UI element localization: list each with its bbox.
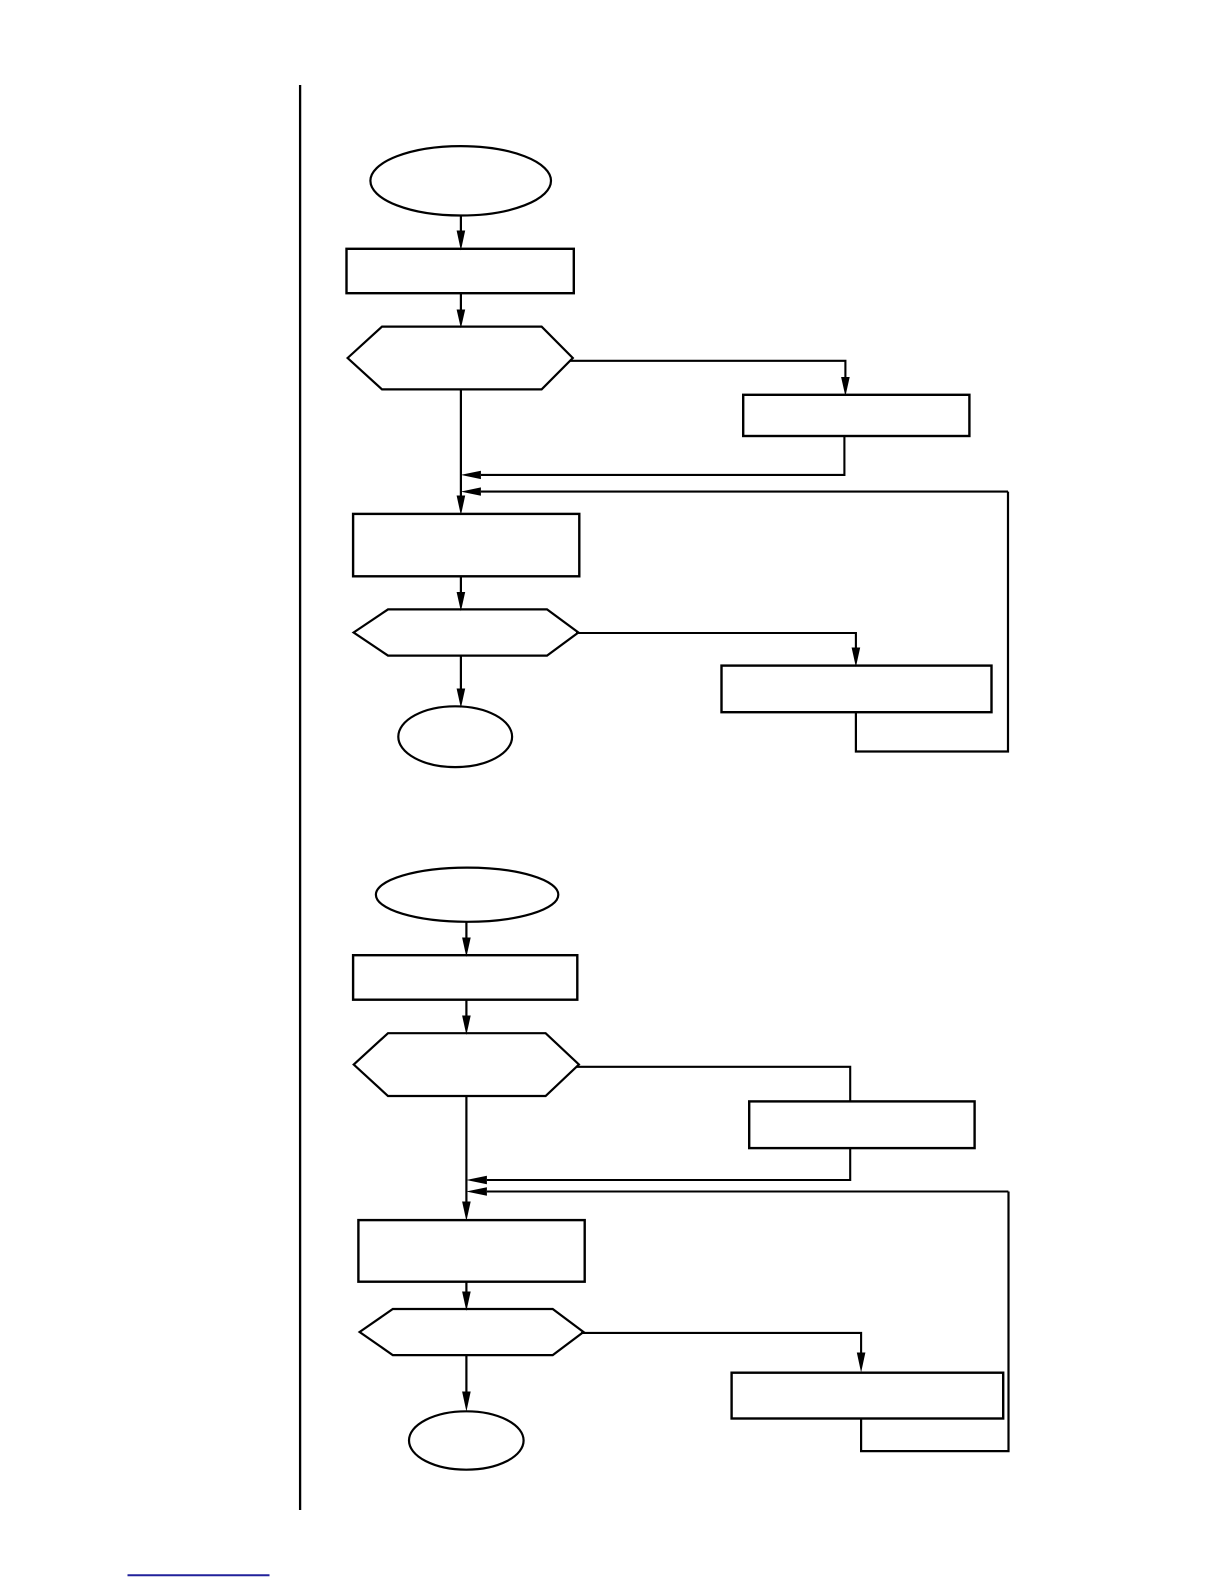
process box P4 (722, 666, 992, 713)
process box P7 (358, 1220, 584, 1282)
wire D2 right branch to P4 (576, 633, 856, 649)
wire P2 loop back to main line (481, 436, 844, 475)
wire P1 to D1 (460, 293, 462, 310)
arrowhead into D1 (457, 310, 466, 329)
merge wire from big loop 1 (481, 491, 1008, 493)
arrowhead into P5 (462, 938, 471, 958)
process box P6 (749, 1101, 974, 1148)
arrowhead into P8 (857, 1353, 866, 1373)
arrowhead into D3 (462, 1016, 471, 1036)
arrowhead merge big loop 1 (461, 487, 481, 495)
arrowhead merge P6 loop (466, 1176, 487, 1184)
arrowhead into E2 (457, 689, 466, 709)
wire P3 to D2 (460, 576, 462, 593)
footnote separator blue line (128, 1574, 270, 1576)
wire D4 to E4 (465, 1355, 467, 1392)
decision hexagon D4 (360, 1309, 584, 1355)
process box P3 (353, 514, 579, 576)
main wire D3 to P7 (465, 1096, 467, 1203)
wire D2 to E2 (460, 656, 462, 690)
decision hexagon D2 (354, 609, 579, 655)
main wire D1 to P3 (460, 389, 462, 496)
arrowhead into D2 (457, 592, 466, 611)
decision hexagon D1 (348, 327, 573, 390)
terminal ellipse E3 (flowchart 2 start) (376, 868, 558, 922)
wire P5 to D3 (465, 1000, 467, 1017)
process box P8 (732, 1373, 1004, 1419)
wire D3 right branch into P6 (577, 1067, 851, 1102)
arrowhead into E4 (462, 1392, 471, 1412)
big loop wire 2 (861, 1192, 1008, 1452)
arrowhead into P2 (841, 377, 850, 396)
arrowhead merge P2 loop (461, 471, 481, 479)
wire E1 to P1 (460, 216, 462, 232)
merge wire from big loop 2 (487, 1190, 1008, 1192)
arrowhead into P3 (457, 496, 466, 516)
terminal ellipse E4 (flowchart 2 end) (409, 1411, 524, 1469)
wire D4 right branch to P8 (581, 1333, 861, 1354)
wire E3 to P5 (465, 922, 467, 939)
arrowhead into P4 (852, 648, 861, 668)
big loop wire 1 (856, 492, 1008, 752)
process box P2 (743, 395, 969, 436)
wire P6 loop back to main line (487, 1148, 850, 1180)
terminal ellipse E2 (flowchart 1 end) (398, 706, 512, 767)
terminal ellipse E1 (flowchart 1 start) (370, 146, 551, 215)
left margin vertical rule (299, 85, 301, 1510)
process box P5 (353, 955, 577, 1000)
arrowhead merge big loop 2 (466, 1187, 487, 1195)
wire P7 to D4 (465, 1282, 467, 1293)
arrowhead into D4 (462, 1292, 471, 1312)
decision hexagon D3 (354, 1033, 579, 1096)
arrowhead into P1 (457, 231, 466, 251)
wire D1 right branch to P2 (571, 361, 846, 378)
arrowhead into P7 (462, 1202, 471, 1222)
process box P1 (347, 249, 574, 293)
